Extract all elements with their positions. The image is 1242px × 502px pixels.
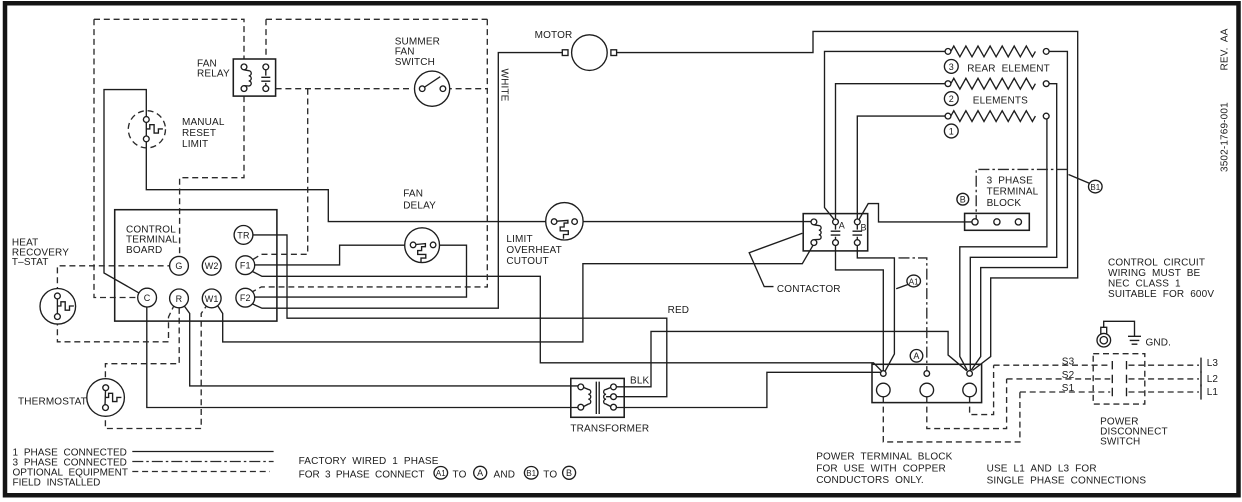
contactor label pointer (749, 233, 802, 286)
resistor element 3 REAR ELEMENT (945, 46, 1049, 57)
B1 label pointer (1069, 175, 1090, 184)
svg-text:REV. AA: REV. AA (1220, 28, 1231, 70)
svg-text:B1: B1 (526, 469, 536, 478)
svg-text:RELAY: RELAY (197, 69, 230, 80)
svg-text:G: G (175, 261, 182, 271)
wire dash-dot B1 three phase option to 3 phase terminal block (976, 169, 1067, 218)
svg-text:SUITABLE FOR 600V: SUITABLE FOR 600V (1108, 289, 1214, 300)
node B legend (563, 466, 576, 479)
wire F1 to power terminal 1 (253, 272, 882, 371)
svg-text:B1: B1 (1090, 183, 1100, 192)
svg-text:BLOCK: BLOCK (987, 198, 1022, 209)
summer fan switch (415, 71, 450, 106)
node L1 tick (1200, 384, 1202, 399)
svg-text:A1: A1 (436, 469, 446, 478)
wire dashed S1 row through disconnect switch to L1 (1020, 391, 1110, 393)
node B (957, 193, 969, 205)
svg-text:TO: TO (543, 470, 557, 481)
svg-text:WHITE: WHITE (499, 69, 510, 102)
wire dashed summer fan switch right down to F2 (253, 19, 488, 291)
wire dashed box top-left to fan relay coil (94, 19, 244, 59)
svg-text:USE L1 AND L3 FOR: USE L1 AND L3 FOR (987, 464, 1097, 475)
svg-text:TRANSFORMER: TRANSFORMER (570, 424, 649, 435)
wire motor right to power terminal 3 (top route) (617, 31, 1078, 370)
wire TR to RED to transformer secondary mid (253, 235, 667, 397)
wire dashed heat recovery t-stat top to G (57, 266, 169, 293)
svg-text:F2: F2 (240, 293, 251, 303)
resistor element 1 (945, 111, 1049, 122)
wire dashed fan relay coil bottom to R (180, 96, 244, 256)
svg-text:B: B (861, 223, 867, 233)
wire element 2 right to power terminal 3 (970, 84, 1056, 371)
wire C to transformer primary bottom (147, 307, 578, 408)
wire F2 to WHITE to motor left (253, 53, 563, 309)
svg-text:RESET: RESET (182, 128, 216, 139)
wire dashed top to fan relay contact (265, 19, 267, 59)
node A (910, 350, 923, 363)
svg-text:LIMIT: LIMIT (506, 234, 532, 245)
wire dashed fan relay contact to F1 (253, 89, 308, 260)
svg-text:W2: W2 (205, 261, 219, 271)
svg-text:S1: S1 (1062, 383, 1075, 394)
svg-text:NEC CLASS 1: NEC CLASS 1 (1108, 278, 1181, 289)
power disconnect switch poles (1112, 358, 1201, 400)
wire element 3 right to power terminal 3 (971, 51, 1067, 370)
svg-text:L2: L2 (1207, 374, 1219, 385)
svg-text:A: A (477, 468, 483, 478)
svg-text:A: A (913, 351, 919, 361)
wire dashed power terminal 2 to S2 (927, 379, 1007, 429)
control terminal board (115, 210, 277, 321)
svg-text:FIELD INSTALLED: FIELD INSTALLED (13, 477, 101, 488)
wire element 1 right to power terminal 3 (960, 119, 1047, 370)
svg-text:REAR ELEMENT: REAR ELEMENT (967, 64, 1050, 75)
svg-text:L1: L1 (1207, 387, 1219, 398)
wire dashed summer fan switch to corner (446, 88, 488, 90)
svg-text:A1: A1 (909, 277, 919, 286)
power disconnect switch dashed box (1093, 354, 1145, 404)
wire element 1 left to contact B (857, 116, 945, 219)
svg-text:FOR 3 PHASE CONNECT: FOR 3 PHASE CONNECT (299, 470, 425, 481)
svg-text:C: C (144, 293, 151, 303)
wire F1 to fan delay left (255, 245, 411, 265)
wire transformer bottom tap to power terminal 1 (617, 372, 881, 407)
wire element 3 left to contact A (825, 51, 946, 219)
wire C to manual reset limit (diag+vertical+horizontal) (104, 90, 146, 293)
svg-text:TO: TO (453, 470, 467, 481)
svg-text:T–STAT: T–STAT (12, 257, 49, 268)
contactor (803, 214, 868, 251)
svg-text:R: R (176, 294, 183, 304)
wire contact A bottom to power terminal 1 (836, 246, 884, 371)
svg-text:FOR USE WITH COPPER: FOR USE WITH COPPER (816, 464, 946, 475)
wire dashed top line to summer fan switch box (266, 18, 487, 20)
ground symbol (1128, 336, 1141, 344)
node L3 tick (1200, 358, 1202, 373)
wire dashed S2 row through disconnect switch to L2 (1007, 378, 1111, 380)
wire BLK transformer to power terminal 3 (617, 331, 967, 386)
svg-text:DELAY: DELAY (403, 201, 436, 212)
svg-text:SWITCH: SWITCH (395, 57, 435, 68)
node element 2 number (944, 92, 958, 106)
wire R to transformer primary top (184, 306, 578, 386)
wire element 2 left to contact A (836, 84, 946, 219)
svg-text:AND: AND (494, 470, 516, 481)
svg-text:BLK: BLK (630, 376, 650, 387)
thermostat (87, 379, 125, 417)
transformer T1 (571, 378, 624, 417)
node B1 (1089, 180, 1103, 193)
svg-text:CONTROL CIRCUIT: CONTROL CIRCUIT (1108, 257, 1205, 268)
svg-text:CONTACTOR: CONTACTOR (777, 284, 841, 295)
wire dashed S3 row through disconnect switch to L3 (994, 364, 1111, 366)
wire W1 to contactor coil bottom (218, 245, 813, 342)
svg-text:FAN: FAN (395, 47, 415, 58)
svg-text:CONDUCTORS ONLY.: CONDUCTORS ONLY. (816, 475, 924, 486)
svg-text:3: 3 (949, 62, 954, 72)
wire limit overheat cutout to contactor coil top (578, 221, 812, 223)
svg-text:SINGLE PHASE CONNECTIONS: SINGLE PHASE CONNECTIONS (987, 475, 1147, 486)
node element 3 number (944, 60, 958, 74)
wire dashed thermostat bottom to W1 (105, 306, 206, 429)
3 phase terminal block (965, 213, 1030, 230)
legend line samples (132, 451, 273, 453)
svg-text:3 PHASE: 3 PHASE (987, 176, 1033, 187)
node A1 legend (434, 467, 448, 480)
svg-text:THERMOSTAT: THERMOSTAT (18, 397, 87, 408)
svg-text:OVERHEAT: OVERHEAT (506, 245, 561, 256)
svg-text:FAN: FAN (403, 189, 423, 200)
svg-text:WIRING MUST BE: WIRING MUST BE (1108, 268, 1201, 279)
wire contact B bottom to power terminal 1 (857, 246, 894, 371)
svg-text:FACTORY WIRED 1 PHASE: FACTORY WIRED 1 PHASE (299, 456, 439, 467)
wire dashed left edge down to C (94, 19, 138, 297)
node L2 tick (1200, 371, 1202, 386)
wire ground lug to ground symbol (1104, 321, 1135, 336)
svg-text:TERMINAL: TERMINAL (987, 187, 1039, 198)
wire dashed power terminal 3 to S3 (970, 365, 994, 414)
svg-text:S2: S2 (1062, 370, 1075, 381)
node A1 (907, 275, 921, 287)
power terminal block (872, 364, 982, 402)
svg-text:SWITCH: SWITCH (1100, 437, 1140, 448)
svg-text:ELEMENTS: ELEMENTS (973, 96, 1028, 107)
svg-text:BOARD: BOARD (126, 245, 162, 256)
svg-text:LIMIT: LIMIT (182, 139, 208, 150)
wire dashed R to thermostat top (105, 308, 179, 383)
svg-text:MOTOR: MOTOR (535, 30, 573, 41)
wire manual reset limit to limit overheat cutout (146, 142, 551, 222)
wire fan delay right to F2 (255, 245, 467, 297)
svg-text:CUTOUT: CUTOUT (506, 256, 548, 267)
node A legend (474, 466, 487, 479)
ground lug (1097, 327, 1111, 347)
svg-text:W1: W1 (205, 294, 219, 304)
svg-text:B: B (566, 468, 572, 478)
node element 1 number (944, 124, 958, 138)
wire dashed fan relay to summer fan switch (276, 88, 412, 90)
fan delay (405, 228, 440, 263)
svg-text:2: 2 (949, 94, 954, 104)
motor (562, 35, 616, 71)
manual reset limit (128, 111, 165, 148)
wire dash-dot A1 three phase option to power terminal 2 (899, 258, 927, 371)
svg-text:B: B (960, 195, 966, 205)
svg-text:MANUAL: MANUAL (182, 117, 225, 128)
svg-text:F1: F1 (240, 261, 251, 271)
node B1 legend (524, 467, 538, 480)
resistor element 2 (945, 78, 1049, 89)
svg-text:POWER TERMINAL BLOCK: POWER TERMINAL BLOCK (816, 452, 952, 463)
svg-text:A: A (839, 221, 845, 231)
svg-text:L3: L3 (1207, 358, 1219, 369)
svg-text:3502-1769-001: 3502-1769-001 (1220, 102, 1231, 172)
fan relay (233, 59, 275, 96)
limit overheat cutout (546, 203, 583, 240)
svg-text:GND.: GND. (1146, 338, 1172, 349)
svg-text:RED: RED (668, 305, 690, 316)
wire contact B to 3 phase terminal block (859, 204, 972, 222)
heat recovery t-stat (40, 289, 76, 325)
A1 label pointer (896, 284, 908, 289)
wire dashed power terminal 1 to S1 (883, 392, 1020, 442)
svg-text:TR: TR (237, 230, 250, 240)
svg-text:1: 1 (949, 127, 954, 137)
wire dashed heat recovery t-stat bottom to R (57, 307, 173, 342)
svg-text:S3: S3 (1062, 356, 1075, 367)
